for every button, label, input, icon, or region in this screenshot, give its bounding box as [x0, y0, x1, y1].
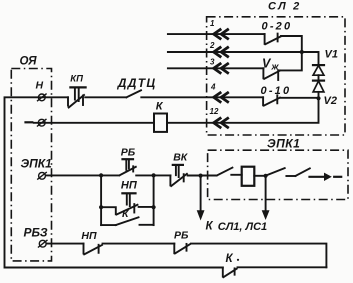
terminal minus — [38, 119, 45, 126]
node V2 junction — [316, 96, 320, 100]
svg-text:ОЯ: ОЯ — [20, 56, 38, 68]
connector pin 2 — [214, 47, 229, 58]
node dot after coil with branch arrow — [264, 174, 268, 178]
contact 2 inside EPK1 box — [266, 168, 284, 175]
pushbutton NP (НП) branch — [101, 207, 116, 214]
box OYA (ОЯ) dash-dot boundary — [11, 69, 51, 261]
contact NP on RBZ line — [83, 244, 85, 254]
wire KP to DDTC — [85, 96, 126, 98]
svg-text:НП: НП — [121, 180, 138, 192]
svg-text:РБЗ: РБЗ — [24, 226, 48, 240]
svg-text:К: К — [226, 253, 234, 265]
wire 0-20 to node on pin2 line — [281, 36, 302, 52]
wire RB to right corner and down — [191, 244, 326, 268]
svg-text:1: 1 — [210, 19, 215, 28]
wire pin 2 to diode V1 — [168, 52, 319, 65]
contact K branch — [101, 224, 116, 226]
wire NP to RB — [103, 243, 175, 245]
node dot before box with branch arrow — [199, 174, 203, 178]
connector pin 12 — [214, 118, 229, 129]
svg-text:3: 3 — [210, 58, 215, 67]
svg-text:Н: Н — [36, 79, 44, 91]
terminal EPK1 — [39, 172, 46, 179]
arrow continuation right — [310, 176, 326, 178]
wire coil K to diode junction (pin 12 line) — [167, 98, 319, 123]
terminal H — [38, 94, 45, 101]
connector pin 4 — [214, 92, 229, 103]
relay coil K — [154, 114, 167, 132]
switch 0-20 — [264, 34, 266, 44]
branch vertical left x=101 — [100, 175, 102, 225]
svg-text:0-10: 0-10 — [261, 85, 292, 97]
wire bottom return with contact K — [238, 266, 327, 268]
box EPK1 (ЭПК1) dash-dot boundary — [208, 150, 348, 199]
wire RB to VK — [136, 174, 170, 176]
wire pin 3 stub — [168, 67, 264, 69]
wire DDTC to switch 0-10 (pin 4 line) — [141, 96, 263, 98]
wire: minus rail / pin 12 line — [34, 122, 154, 124]
wire: RBZ line from terminal — [47, 243, 84, 245]
svg-text:ДДТЦ: ДДТЦ — [117, 76, 157, 90]
svg-text:ЭПК1: ЭПК1 — [21, 157, 53, 171]
svg-text:СЛ 2: СЛ 2 — [268, 1, 301, 13]
pushbutton RB (РБ) — [120, 167, 136, 175]
arrow down to SL1 LS1 (right) — [265, 176, 267, 212]
svg-text:0-20: 0-20 — [262, 21, 293, 33]
svg-text:4: 4 — [210, 83, 216, 92]
relay coil EPK1 — [242, 167, 255, 186]
node dot right of RB — [152, 173, 156, 177]
svg-text:К: К — [206, 221, 214, 233]
pushbutton KP (КП) — [67, 97, 69, 105]
svg-text:РБ: РБ — [174, 230, 189, 242]
terminal RBZ — [39, 240, 46, 247]
wire between contacts — [286, 175, 295, 177]
switch Vzh (Vж) — [262, 68, 264, 78]
node dots on NP branch — [99, 205, 103, 209]
wire 0-10 to diode junction — [280, 97, 319, 99]
wire NP branch right segment — [139, 206, 154, 208]
connector pin 3 — [214, 63, 229, 74]
svg-text:V2: V2 — [324, 95, 337, 107]
box SL2 (СЛ2) dash-dot boundary — [207, 17, 345, 135]
diode V1 — [313, 64, 324, 66]
connector pin 1 — [214, 29, 229, 40]
wire Vzh up to node on pin2 line — [280, 52, 302, 70]
diode V2 — [318, 75, 320, 80]
svg-text:ВК: ВК — [173, 151, 189, 163]
pushbutton VK (ВК) — [169, 175, 171, 185]
wire: left return rail from node H down and along bottom — [5, 97, 223, 267]
svg-text:НП: НП — [81, 230, 97, 242]
wire VK into EPK1 box — [188, 175, 217, 177]
svg-text:V1: V1 — [325, 48, 338, 60]
wire: EPK1 line from terminal — [47, 174, 120, 176]
svg-text:СЛ1, ЛС1: СЛ1, ЛС1 — [218, 221, 267, 233]
contact RB on RBZ line — [173, 244, 175, 254]
node dot pin2 — [300, 50, 304, 54]
svg-text:РБ: РБ — [121, 146, 136, 158]
minus sign — [26, 121, 33, 123]
branch vertical right x=153.6 — [153, 175, 155, 225]
svg-text:2: 2 — [209, 41, 215, 50]
contact DDTC (ДДТЦ) — [127, 90, 142, 97]
svg-text:ж: ж — [271, 61, 280, 72]
svg-text:ЭПК1: ЭПК1 — [267, 137, 300, 151]
contact 3 inside EPK1 box — [295, 168, 309, 176]
node dot left of RB — [99, 173, 103, 177]
svg-text:КП: КП — [70, 73, 83, 84]
switch 0-10 — [262, 97, 264, 105]
contact 1 inside EPK1 box — [217, 168, 232, 176]
wire coil to node — [254, 175, 266, 177]
contact K bottom — [222, 268, 224, 277]
arrow down to SL1 LS1 (left) — [200, 176, 202, 212]
svg-text:12: 12 — [210, 107, 219, 116]
wire pin 1 stub — [168, 33, 265, 35]
